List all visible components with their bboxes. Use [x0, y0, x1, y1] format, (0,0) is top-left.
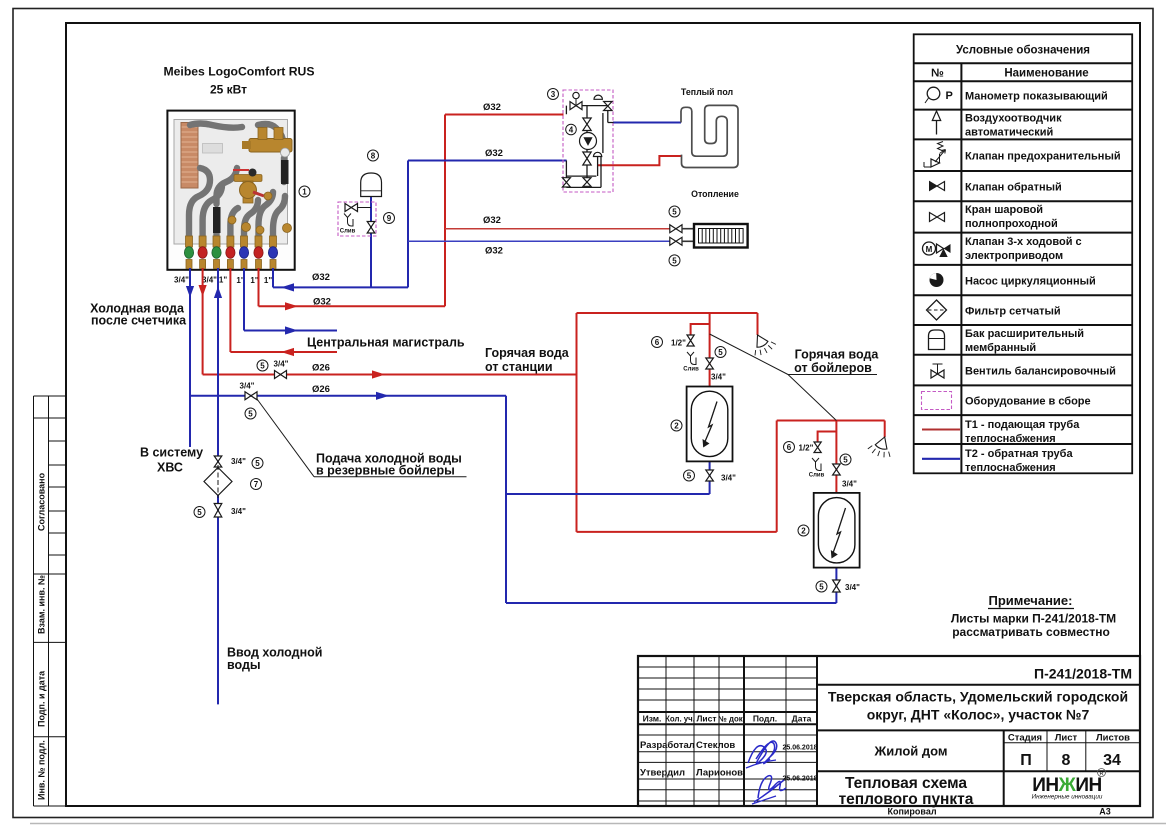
svg-text:Ø26: Ø26 [312, 384, 330, 395]
svg-text:Ø32: Ø32 [312, 272, 330, 283]
legend symbol: air vent [936, 119, 938, 135]
legend symbol: pump [930, 273, 944, 287]
wire: DHW supply d26 horizontal [203, 374, 577, 376]
svg-text:Слив: Слив [809, 473, 825, 479]
shower 2 [867, 433, 896, 460]
svg-text:П: П [1020, 752, 1032, 769]
callout 3 [548, 89, 559, 100]
wire: shower2 drop [884, 421, 886, 438]
wire: shower1 drop [757, 313, 759, 335]
svg-text:3/4": 3/4" [231, 507, 246, 516]
check valve top right [604, 102, 612, 107]
bottom drain valves [562, 178, 570, 183]
svg-text:Фильтр сетчатый: Фильтр сетчатый [965, 306, 1061, 318]
wire: heating return riser [407, 161, 409, 288]
svg-text:9: 9 [387, 214, 392, 223]
wire: boiler2 riser [776, 421, 778, 532]
valve 5 boiler1 top [706, 358, 714, 364]
svg-text:Согласовано: Согласовано [37, 472, 47, 531]
svg-text:3/4": 3/4" [721, 474, 736, 483]
legend symbol: safety valve [938, 142, 944, 154]
svg-text:Клапан 3-х ходовой с: Клапан 3-х ходовой с [965, 236, 1082, 248]
svg-text:Т1 - подающая труба: Т1 - подающая труба [965, 419, 1080, 431]
valve below pump [583, 152, 591, 159]
valve 5 below filter [214, 504, 222, 511]
leader: hot water from boilers [710, 334, 837, 421]
wire: port2 DHW supply drop [202, 268, 204, 375]
wire: boiler2 drain branch [818, 432, 837, 443]
valve 5 above filter [214, 456, 222, 462]
temp sensor domes [594, 95, 602, 99]
boiler B1 [687, 387, 733, 462]
svg-text:от бойлеров: от бойлеров [794, 361, 872, 375]
svg-text:Насос циркуляционный: Насос циркуляционный [965, 276, 1096, 288]
svg-text:1/2": 1/2" [671, 339, 686, 348]
wire: heating supply d32 [259, 305, 446, 307]
svg-text:Кол. уч.: Кол. уч. [665, 715, 695, 724]
left sidebar stamp table [34, 396, 67, 806]
svg-text:А3: А3 [1099, 807, 1111, 817]
wire: floor loop return red [598, 156, 681, 165]
copper heat exchanger [181, 123, 198, 189]
svg-text:4: 4 [569, 126, 574, 135]
drain valve 6 boiler2 [814, 442, 821, 447]
svg-text:Р: Р [946, 90, 953, 102]
legend symbol: ball valve [930, 213, 938, 222]
wire: port6 heating supply drop [258, 268, 260, 306]
svg-text:Условные обозначения: Условные обозначения [956, 45, 1090, 57]
svg-text:Слив: Слив [683, 367, 699, 373]
wire: bottom link to boiler2 [577, 531, 777, 533]
svg-text:Утвердил: Утвердил [640, 768, 685, 779]
svg-text:3/4": 3/4" [845, 583, 860, 592]
wire: mixing unit to floor coil [613, 122, 681, 124]
svg-text:5: 5 [718, 348, 723, 357]
svg-text:3/4": 3/4" [274, 360, 289, 369]
wire: radiator supply d32 [445, 228, 670, 230]
svg-text:5: 5 [248, 410, 253, 419]
legend symbol: assembled equipment dashed box [922, 392, 952, 410]
strainer filter 7 [204, 468, 232, 496]
legend symbol: check valve [930, 182, 938, 191]
svg-text:Ларионов: Ларионов [696, 768, 743, 779]
svg-text:Примечание:: Примечание: [989, 593, 1073, 608]
wire: supply to mixing unit [445, 114, 564, 116]
callout 5 radiator supply [669, 206, 680, 217]
svg-text:Горячая вода: Горячая вода [795, 348, 880, 362]
gray pipes [189, 124, 285, 244]
svg-text:Лист: Лист [1055, 733, 1078, 744]
svg-text:3/4": 3/4" [231, 457, 246, 466]
svg-text:Подл.: Подл. [753, 714, 777, 724]
svg-text:Ø26: Ø26 [312, 363, 330, 374]
wire: heating supply riser [444, 115, 446, 307]
svg-text:Тепловая схема: Тепловая схема [845, 775, 967, 792]
svg-text:Горячая вода: Горячая вода [485, 346, 570, 360]
wire: cold water inlet riser [217, 268, 219, 704]
svg-text:Ø32: Ø32 [483, 102, 501, 113]
svg-text:Отопление: Отопление [691, 189, 739, 199]
svg-text:3/4": 3/4" [240, 382, 255, 391]
svg-text:В систему: В систему [140, 446, 203, 460]
svg-text:мембранный: мембранный [965, 342, 1036, 354]
3-way valve V1 with motor [570, 102, 576, 110]
valve 5 boiler1 bottom [706, 470, 714, 476]
svg-text:№: № [931, 68, 944, 80]
wire: boiler1 top manifold [577, 312, 758, 314]
wire: port1 cold out drop [189, 268, 191, 447]
wire: port7 heating return drop [272, 268, 274, 287]
svg-text:25.06.2018: 25.06.2018 [782, 745, 817, 752]
svg-text:М: М [926, 245, 933, 254]
svg-text:3/4": 3/4" [842, 480, 857, 489]
svg-text:Ø32: Ø32 [485, 148, 503, 159]
wire: expansion tank drop [370, 197, 372, 288]
wire: central main supply [244, 330, 337, 332]
leader: cold feed to reserve boilers [257, 399, 314, 477]
signature 2 [754, 776, 786, 802]
legend symbol: T2 blue line [922, 458, 960, 460]
legend symbol: pressure gauge [927, 87, 940, 100]
svg-text:R: R [1100, 771, 1104, 777]
svg-text:№ док.: № док. [718, 715, 745, 724]
ball valve on d26 blue [245, 392, 251, 400]
black insulation segments [213, 207, 221, 233]
svg-text:5: 5 [197, 508, 202, 517]
svg-text:рассматривать совместно: рассматривать совместно [952, 625, 1110, 639]
svg-text:3/4": 3/4" [202, 276, 217, 285]
svg-text:Центральная магистраль: Центральная магистраль [307, 336, 465, 350]
svg-text:Разработал: Разработал [640, 740, 695, 751]
svg-text:Стеклов: Стеклов [696, 740, 735, 751]
svg-text:Взам. инв. №: Взам. инв. № [37, 575, 47, 634]
wire: heating return d32 [273, 286, 408, 288]
svg-text:Дата: Дата [792, 714, 812, 724]
title block [638, 656, 1140, 808]
svg-text:5: 5 [672, 208, 677, 217]
wire: port5 central supply drop [243, 268, 245, 331]
svg-text:1: 1 [302, 188, 307, 197]
svg-text:25 кВт: 25 кВт [210, 83, 247, 97]
callout 5 radiator return [669, 255, 680, 266]
svg-text:5: 5 [843, 456, 848, 465]
svg-text:ХВС: ХВС [157, 461, 183, 475]
svg-text:Жилой дом: Жилой дом [873, 744, 947, 759]
svg-text:Тверская область, Удомельский: Тверская область, Удомельский городской [828, 689, 1128, 705]
svg-text:1": 1" [219, 276, 227, 285]
svg-text:8: 8 [1062, 752, 1071, 769]
svg-text:Теплый пол: Теплый пол [681, 87, 733, 97]
svg-text:теплоснабжения: теплоснабжения [965, 462, 1056, 474]
svg-text:Лист: Лист [696, 714, 716, 724]
svg-text:6: 6 [787, 443, 792, 452]
svg-text:Оборудование в сборе: Оборудование в сборе [965, 396, 1091, 408]
callout 4 [566, 124, 577, 135]
svg-text:электроприводом: электроприводом [965, 250, 1063, 262]
wire: boiler1 drain branch [691, 324, 710, 335]
wire: port4 central return drop [229, 268, 231, 352]
valve above pump [583, 118, 591, 124]
wire: boiler1 cold branch [506, 461, 710, 494]
svg-text:Наименование: Наименование [1004, 68, 1088, 80]
svg-text:1/2": 1/2" [799, 444, 814, 453]
svg-text:Слив: Слив [340, 229, 356, 235]
svg-text:2: 2 [674, 422, 679, 431]
svg-text:Бак расширительный: Бак расширительный [965, 328, 1084, 340]
svg-text:Стадия: Стадия [1008, 733, 1042, 744]
assembled unit dashed box [563, 90, 613, 192]
brass manifold and valves [249, 139, 292, 153]
wire: cold feed riser down [505, 396, 507, 603]
svg-text:Манометр показывающий: Манометр показывающий [965, 91, 1108, 103]
svg-text:34: 34 [1103, 752, 1121, 769]
wire: DHW riser to boilers manifold [576, 313, 578, 532]
svg-text:после счетчика: после счетчика [91, 314, 187, 328]
svg-text:5: 5 [687, 472, 692, 481]
svg-text:Т2 - обратная труба: Т2 - обратная труба [965, 448, 1073, 460]
svg-text:5: 5 [672, 256, 677, 265]
legend symbol: strainer filter [927, 300, 947, 320]
drain valve 6 boiler1 [687, 335, 694, 341]
wire: boiler2 inlet drop [835, 421, 837, 493]
sheet shadow line bottom [30, 823, 1166, 825]
svg-text:Клапан обратный: Клапан обратный [965, 182, 1062, 194]
legend symbol: balancing valve [937, 364, 939, 374]
svg-text:округ, ДНТ «Колос», участок №7: округ, ДНТ «Колос», участок №7 [867, 707, 1090, 723]
svg-text:автоматический: автоматический [965, 127, 1053, 139]
legend symbol: T1 red line [922, 429, 960, 431]
svg-text:3/4": 3/4" [174, 276, 189, 285]
legend symbol: 3-way valve w motor [923, 242, 936, 255]
svg-text:Ø32: Ø32 [483, 215, 501, 226]
signature 1 [748, 741, 777, 764]
svg-text:теплоснабжения: теплоснабжения [965, 433, 1056, 445]
port connectors with colored handles [184, 236, 277, 269]
ball valve on radiator return [670, 237, 676, 245]
svg-text:7: 7 [254, 480, 259, 489]
radiator R1 [694, 224, 748, 248]
svg-text:6: 6 [655, 338, 660, 347]
internal piping [566, 102, 613, 188]
svg-text:воды: воды [227, 658, 261, 672]
svg-text:Кран шаровой: Кран шаровой [965, 204, 1043, 216]
svg-text:Инв. № подл.: Инв. № подл. [37, 740, 47, 800]
svg-text:Воздухоотводчик: Воздухоотводчик [965, 113, 1062, 125]
wire: boiler2 top manifold [777, 420, 885, 422]
svg-text:3/4": 3/4" [711, 373, 726, 382]
svg-text:теплового пункта: теплового пункта [839, 791, 974, 808]
wire: boiler1 inlet drop [709, 313, 711, 387]
svg-text:Meibes LogoComfort RUS: Meibes LogoComfort RUS [164, 65, 315, 79]
legend symbol: expansion tank [929, 330, 945, 350]
svg-text:Ø32: Ø32 [485, 246, 503, 257]
sticker label [203, 144, 223, 154]
pump 4 [580, 133, 597, 150]
svg-text:полнопроходной: полнопроходной [965, 218, 1058, 230]
note (Primechanie) [951, 593, 1116, 639]
wire: mixing unit return [408, 160, 567, 162]
svg-text:Ø32: Ø32 [313, 297, 331, 308]
svg-text:5: 5 [255, 459, 260, 468]
Meibes unit photo box U1 [167, 111, 294, 270]
wire: radiator return d32 [408, 240, 670, 242]
svg-text:8: 8 [371, 152, 376, 161]
shower 1 [747, 329, 777, 358]
svg-text:Инженерные инновации: Инженерные инновации [1032, 794, 1103, 801]
svg-text:5: 5 [260, 362, 265, 371]
wire: boiler2 cold bottom run [506, 568, 836, 603]
svg-text:Копировал: Копировал [887, 807, 936, 817]
svg-text:Листов: Листов [1096, 733, 1130, 744]
svg-text:Клапан предохранительный: Клапан предохранительный [965, 151, 1121, 163]
valve 5 boiler2 top [833, 464, 841, 470]
callout circle 1 [299, 186, 310, 197]
wire: central main return [230, 351, 337, 353]
svg-text:1": 1" [264, 276, 272, 285]
ball valve on d26 red [275, 371, 281, 379]
svg-text:Изм.: Изм. [643, 714, 662, 724]
svg-text:25.06.2018: 25.06.2018 [782, 776, 817, 783]
svg-text:от станции: от станции [485, 360, 553, 374]
svg-text:Вентиль балансировочный: Вентиль балансировочный [965, 366, 1116, 378]
legend table [914, 34, 1132, 474]
svg-text:в резервные бойлеры: в резервные бойлеры [316, 464, 455, 478]
wire: cold feed d26 to reserve boilers [190, 395, 506, 397]
ball valve on radiator supply [670, 225, 676, 233]
svg-text:5: 5 [819, 583, 824, 592]
svg-text:3: 3 [551, 90, 556, 99]
boiler B2 [814, 493, 860, 568]
svg-text:Листы марки П-241/2018-ТМ: Листы марки П-241/2018-ТМ [951, 612, 1116, 626]
svg-text:2: 2 [801, 527, 806, 536]
valve 5 boiler2 bottom [833, 580, 841, 586]
svg-text:Подп. и дата: Подп. и дата [37, 670, 47, 727]
svg-text:П-241/2018-ТМ: П-241/2018-ТМ [1034, 666, 1132, 682]
